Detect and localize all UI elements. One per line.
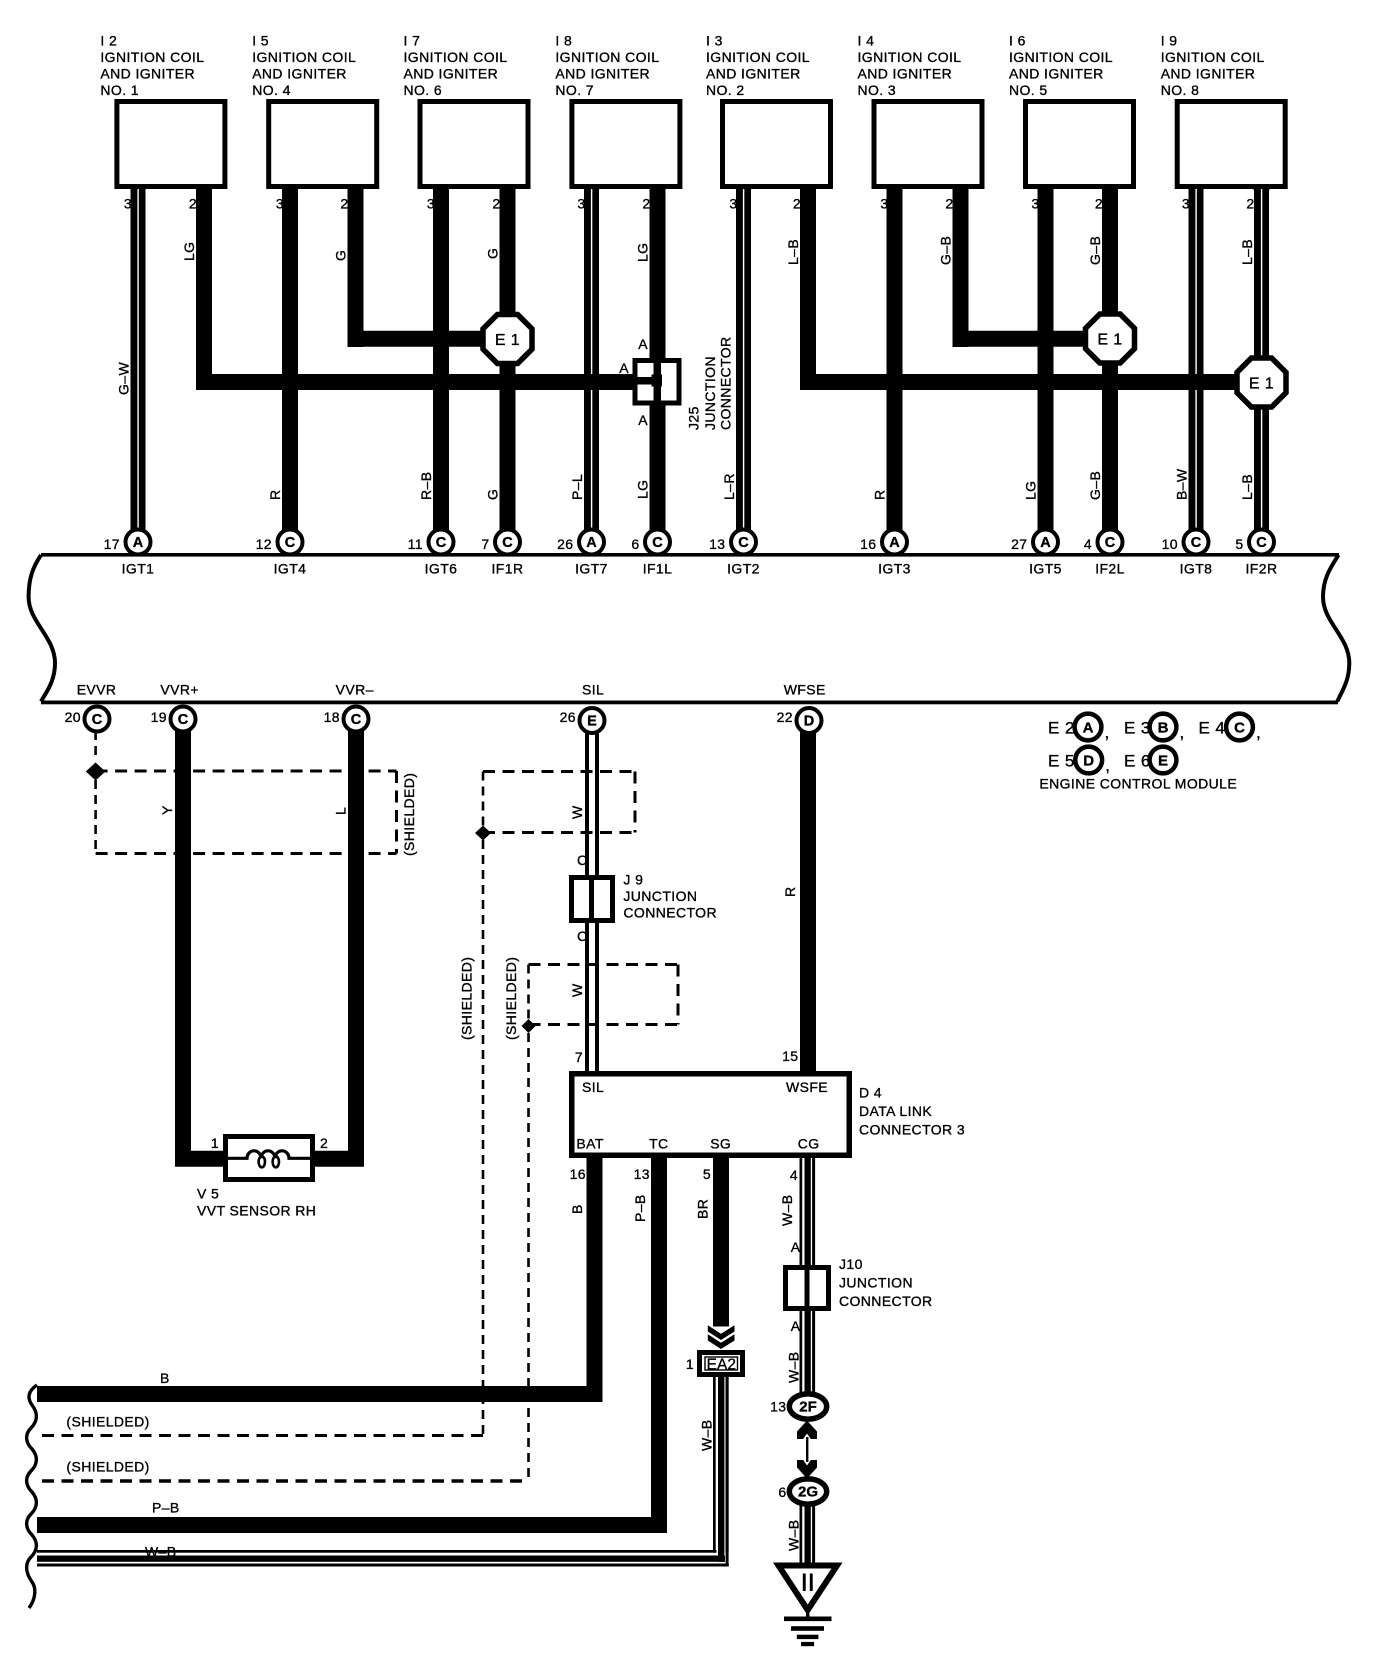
svg-text:A: A — [638, 412, 648, 428]
svg-text:IF1R: IF1R — [492, 561, 524, 577]
svg-text:G–B: G–B — [1087, 471, 1103, 500]
svg-text:10: 10 — [1162, 536, 1178, 552]
svg-text:E: E — [587, 714, 597, 730]
svg-text:C: C — [738, 535, 749, 551]
svg-text:A: A — [638, 336, 648, 352]
svg-text:2F: 2F — [799, 1399, 817, 1416]
svg-text:G: G — [485, 489, 501, 500]
svg-text:W: W — [569, 805, 585, 819]
svg-text:Y: Y — [159, 805, 175, 815]
svg-text:C: C — [1256, 535, 1267, 551]
svg-text:3: 3 — [577, 196, 585, 212]
svg-text:,: , — [1180, 723, 1185, 742]
svg-text:NO. 8: NO. 8 — [1161, 82, 1200, 98]
svg-text:CG: CG — [798, 1136, 820, 1152]
svg-text:JUNCTION: JUNCTION — [702, 356, 718, 430]
svg-text:I 3: I 3 — [706, 33, 723, 49]
svg-text:A: A — [791, 1239, 801, 1255]
svg-text:IF2R: IF2R — [1246, 561, 1278, 577]
svg-text:SG: SG — [710, 1136, 731, 1152]
svg-text:A: A — [1083, 719, 1094, 736]
svg-text:CONNECTOR: CONNECTOR — [839, 1293, 933, 1309]
svg-text:ENGINE CONTROL MODULE: ENGINE CONTROL MODULE — [1039, 776, 1237, 792]
svg-text:6: 6 — [778, 1484, 786, 1500]
svg-text:W–B: W–B — [786, 1351, 802, 1383]
svg-text:W–B: W–B — [145, 1544, 177, 1560]
svg-text:CONNECTOR: CONNECTOR — [623, 905, 717, 921]
svg-text:WFSE: WFSE — [784, 682, 826, 698]
svg-text:W–B: W–B — [699, 1419, 715, 1451]
svg-text:IGT3: IGT3 — [878, 561, 911, 577]
svg-text:VVR+: VVR+ — [160, 682, 199, 698]
svg-text:AND IGNITER: AND IGNITER — [404, 66, 499, 82]
svg-text:I 5: I 5 — [252, 33, 269, 49]
svg-text:D: D — [1083, 752, 1094, 769]
svg-text:4: 4 — [1084, 536, 1092, 552]
svg-text:2: 2 — [492, 196, 500, 212]
svg-text:4: 4 — [790, 1167, 798, 1183]
svg-text:A: A — [133, 535, 144, 551]
svg-text:NO. 7: NO. 7 — [555, 82, 594, 98]
svg-text:BAT: BAT — [576, 1136, 603, 1152]
svg-text:A: A — [619, 360, 629, 376]
svg-text:NO. 6: NO. 6 — [404, 82, 443, 98]
svg-text:G–W: G–W — [116, 362, 132, 395]
svg-text:I 7: I 7 — [404, 33, 421, 49]
svg-text:3: 3 — [729, 196, 737, 212]
svg-text:VVR–: VVR– — [336, 682, 374, 698]
svg-text:2: 2 — [793, 196, 801, 212]
svg-text:E 1: E 1 — [1097, 332, 1122, 349]
svg-text:LG: LG — [635, 243, 651, 262]
svg-text:3: 3 — [276, 196, 284, 212]
svg-text:IGT1: IGT1 — [122, 561, 155, 577]
svg-text:12: 12 — [256, 536, 272, 552]
svg-text:W–B: W–B — [786, 1519, 802, 1551]
svg-text:2: 2 — [945, 196, 953, 212]
svg-text:NO. 2: NO. 2 — [706, 82, 745, 98]
svg-text:AND IGNITER: AND IGNITER — [858, 66, 953, 82]
svg-text:26: 26 — [560, 709, 576, 725]
svg-text:IGNITION COIL: IGNITION COIL — [100, 49, 204, 65]
svg-text:D 4: D 4 — [859, 1085, 882, 1101]
svg-text:CONNECTOR: CONNECTOR — [718, 336, 734, 430]
svg-text:C: C — [1234, 719, 1245, 736]
svg-text:C: C — [652, 535, 663, 551]
svg-text:E 1: E 1 — [1249, 376, 1274, 393]
svg-text:E 3: E 3 — [1124, 719, 1151, 738]
svg-text:E 6: E 6 — [1124, 752, 1151, 771]
svg-text:C: C — [577, 852, 588, 868]
svg-text:C: C — [178, 712, 189, 728]
svg-text:I 4: I 4 — [858, 33, 875, 49]
svg-text:B–W: B–W — [1174, 468, 1190, 500]
svg-text:B: B — [569, 1204, 585, 1214]
svg-text:,: , — [1105, 756, 1110, 775]
svg-text:26: 26 — [557, 536, 573, 552]
svg-text:B: B — [1158, 719, 1169, 736]
svg-text:E 2: E 2 — [1048, 719, 1075, 738]
svg-text:LG: LG — [635, 480, 651, 499]
svg-text:R: R — [872, 489, 888, 500]
svg-text:2: 2 — [1095, 196, 1103, 212]
svg-text:7: 7 — [575, 1049, 583, 1065]
svg-text:G: G — [333, 250, 349, 261]
svg-text:G–B: G–B — [1087, 236, 1103, 265]
svg-text:IGNITION COIL: IGNITION COIL — [858, 49, 962, 65]
svg-text:(SHIELDED): (SHIELDED) — [459, 957, 475, 1040]
svg-text:I 8: I 8 — [555, 33, 572, 49]
svg-text:W–B: W–B — [779, 1194, 795, 1226]
svg-text:(SHIELDED): (SHIELDED) — [401, 773, 417, 856]
svg-text:IGT6: IGT6 — [425, 561, 458, 577]
svg-text:P–B: P–B — [152, 1500, 180, 1516]
svg-text:2: 2 — [1246, 196, 1254, 212]
svg-text:3: 3 — [880, 196, 888, 212]
svg-text:3: 3 — [427, 196, 435, 212]
svg-text:I 2: I 2 — [100, 33, 117, 49]
svg-text:IGT8: IGT8 — [1180, 561, 1213, 577]
svg-text:1: 1 — [686, 1356, 694, 1372]
svg-text:AND IGNITER: AND IGNITER — [252, 66, 347, 82]
svg-text:WSFE: WSFE — [786, 1079, 828, 1095]
svg-text:(SHIELDED): (SHIELDED) — [66, 1414, 149, 1430]
svg-text:IF1L: IF1L — [643, 561, 673, 577]
svg-text:L–B: L–B — [785, 239, 801, 265]
svg-text:B: B — [160, 1370, 170, 1386]
svg-text:NO. 5: NO. 5 — [1009, 82, 1048, 98]
svg-text:LG: LG — [1023, 481, 1039, 500]
svg-text:V 5: V 5 — [197, 1186, 219, 1202]
svg-text:1: 1 — [211, 1135, 219, 1151]
svg-text:2: 2 — [189, 196, 197, 212]
svg-text:3: 3 — [1182, 196, 1190, 212]
svg-text:AND IGNITER: AND IGNITER — [1161, 66, 1256, 82]
svg-text:L–B: L–B — [1239, 239, 1255, 265]
svg-text:C: C — [577, 928, 588, 944]
svg-text:AND IGNITER: AND IGNITER — [555, 66, 650, 82]
svg-text:VVT SENSOR RH: VVT SENSOR RH — [197, 1203, 316, 1219]
svg-text:,: , — [1256, 723, 1261, 742]
svg-text:,: , — [1105, 723, 1110, 742]
svg-text:JUNCTION: JUNCTION — [839, 1275, 913, 1291]
svg-text:IGT5: IGT5 — [1029, 561, 1062, 577]
svg-text:(SHIELDED): (SHIELDED) — [503, 957, 519, 1040]
svg-text:DATA LINK: DATA LINK — [859, 1103, 932, 1119]
svg-text:13: 13 — [709, 536, 725, 552]
svg-text:W: W — [569, 983, 585, 997]
svg-text:IGNITION COIL: IGNITION COIL — [1161, 49, 1265, 65]
svg-text:IGNITION COIL: IGNITION COIL — [706, 49, 810, 65]
svg-text:I 9: I 9 — [1161, 33, 1178, 49]
svg-text:P–L: P–L — [569, 474, 585, 500]
svg-text:I 6: I 6 — [1009, 33, 1026, 49]
svg-text:P–B: P–B — [632, 1194, 648, 1222]
svg-text:IGT7: IGT7 — [575, 561, 608, 577]
svg-text:22: 22 — [777, 709, 793, 725]
svg-text:2: 2 — [642, 196, 650, 212]
svg-text:11: 11 — [408, 536, 423, 552]
svg-text:SIL: SIL — [582, 1079, 604, 1095]
svg-text:2: 2 — [320, 1135, 328, 1151]
svg-text:C: C — [1191, 535, 1202, 551]
svg-text:C: C — [351, 712, 362, 728]
svg-text:L–R: L–R — [721, 473, 737, 500]
svg-text:L–B: L–B — [1239, 474, 1255, 500]
svg-text:5: 5 — [1235, 536, 1243, 552]
svg-text:E: E — [1158, 752, 1168, 769]
svg-text:E 4: E 4 — [1199, 719, 1226, 738]
svg-text:L: L — [333, 807, 349, 815]
svg-text:15: 15 — [782, 1048, 798, 1064]
svg-text:NO. 4: NO. 4 — [252, 82, 291, 98]
svg-text:A: A — [889, 535, 900, 551]
svg-text:16: 16 — [570, 1166, 586, 1182]
svg-text:13: 13 — [770, 1399, 786, 1415]
svg-text:IGNITION COIL: IGNITION COIL — [555, 49, 659, 65]
svg-text:D: D — [804, 714, 814, 730]
svg-text:IGNITION COIL: IGNITION COIL — [1009, 49, 1113, 65]
svg-text:G: G — [485, 248, 501, 259]
svg-text:J25: J25 — [686, 406, 702, 430]
svg-text:R: R — [782, 886, 798, 897]
svg-text:IGNITION COIL: IGNITION COIL — [252, 49, 356, 65]
svg-text:A: A — [1040, 535, 1051, 551]
svg-text:6: 6 — [631, 536, 639, 552]
svg-text:AND IGNITER: AND IGNITER — [706, 66, 801, 82]
svg-text:A: A — [586, 535, 597, 551]
svg-text:J10: J10 — [839, 1256, 863, 1272]
svg-text:IGT2: IGT2 — [727, 561, 760, 577]
svg-text:C: C — [1105, 535, 1116, 551]
svg-text:IGT4: IGT4 — [274, 561, 307, 577]
svg-text:G–B: G–B — [938, 236, 954, 265]
svg-text:NO. 3: NO. 3 — [858, 82, 897, 98]
svg-text:EA2: EA2 — [707, 1357, 736, 1374]
svg-text:SIL: SIL — [582, 682, 604, 698]
svg-text:AND IGNITER: AND IGNITER — [1009, 66, 1104, 82]
svg-text:IF2L: IF2L — [1095, 561, 1125, 577]
svg-text:JUNCTION: JUNCTION — [623, 888, 697, 904]
svg-text:19: 19 — [151, 709, 167, 725]
svg-text:20: 20 — [65, 709, 81, 725]
svg-text:R: R — [267, 489, 283, 500]
svg-text:13: 13 — [634, 1166, 650, 1182]
svg-text:16: 16 — [860, 536, 876, 552]
svg-text:BR: BR — [695, 1199, 711, 1219]
svg-text:5: 5 — [703, 1166, 711, 1182]
svg-text:NO. 1: NO. 1 — [100, 82, 139, 98]
svg-text:27: 27 — [1011, 536, 1027, 552]
svg-text:18: 18 — [324, 709, 340, 725]
svg-text:E 5: E 5 — [1048, 752, 1075, 771]
svg-text:E 1: E 1 — [495, 332, 520, 349]
svg-text:A: A — [791, 1318, 801, 1334]
svg-text:AND IGNITER: AND IGNITER — [100, 66, 195, 82]
svg-text:3: 3 — [1031, 196, 1039, 212]
svg-text:17: 17 — [104, 536, 120, 552]
svg-text:7: 7 — [481, 536, 489, 552]
svg-text:EVVR: EVVR — [77, 682, 117, 698]
svg-text:CONNECTOR 3: CONNECTOR 3 — [859, 1122, 965, 1138]
svg-text:J 9: J 9 — [623, 872, 643, 888]
svg-text:R–B: R–B — [418, 472, 434, 500]
svg-text:3: 3 — [124, 196, 132, 212]
svg-text:2: 2 — [340, 196, 348, 212]
svg-text:(SHIELDED): (SHIELDED) — [66, 1459, 149, 1475]
svg-text:IGNITION COIL: IGNITION COIL — [404, 49, 508, 65]
svg-text:C: C — [285, 535, 296, 551]
svg-text:C: C — [92, 712, 103, 728]
svg-text:C: C — [436, 535, 447, 551]
svg-text:LG: LG — [181, 242, 197, 261]
svg-text:TC: TC — [649, 1136, 668, 1152]
svg-text:2G: 2G — [798, 1484, 818, 1501]
svg-text:C: C — [502, 535, 513, 551]
